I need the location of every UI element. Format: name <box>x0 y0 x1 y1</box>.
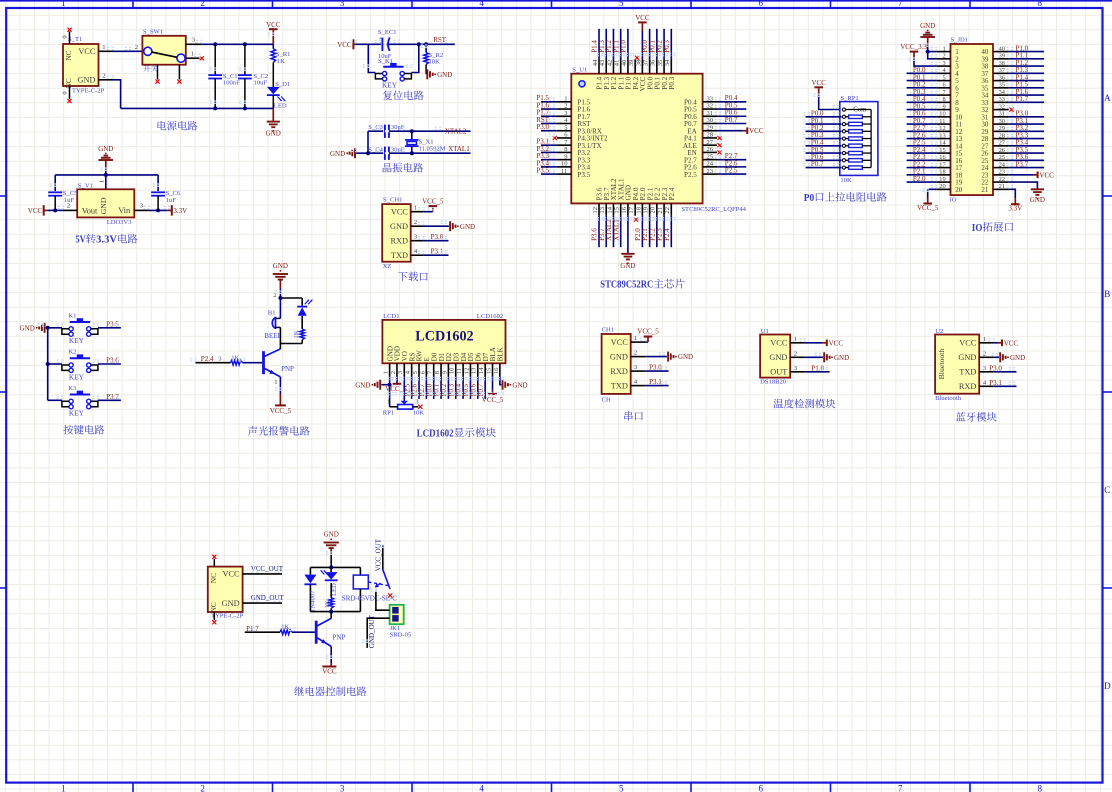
svg-text:12: 12 <box>592 207 599 214</box>
svg-text:22: 22 <box>999 176 1005 183</box>
svg-text:VCC: VCC <box>812 79 827 87</box>
svg-text:VCC: VCC <box>829 339 844 347</box>
svg-text:P3.7: P3.7 <box>1016 160 1029 168</box>
wire JD1.9 net P0.5 <box>907 109 937 111</box>
svg-text:LCD1602: LCD1602 <box>415 328 473 344</box>
SW1 pin 1 stub unconnected <box>186 57 200 59</box>
svg-text:IO: IO <box>950 196 957 203</box>
wire emitter to VCC_5 <box>279 377 281 394</box>
svg-text:TXD: TXD <box>959 368 976 377</box>
svg-text:2: 2 <box>634 350 637 357</box>
junction C2 top <box>243 42 247 46</box>
wire LCD1.7 net P0.0 <box>433 377 435 399</box>
wire U1.38 VCC <box>641 31 643 59</box>
wire LCD1.2 VDD VCC_5 <box>396 377 398 383</box>
svg-text:GND: GND <box>512 381 527 389</box>
junction crystal top <box>410 129 414 133</box>
svg-text:44: 44 <box>592 59 599 66</box>
svg-text:CH: CH <box>602 397 611 404</box>
svg-text:3: 3 <box>943 60 946 67</box>
svg-text:1N4007: 1N4007 <box>310 590 317 612</box>
svg-text:SRD-05VDC-SL-C: SRD-05VDC-SL-C <box>342 594 398 602</box>
ground GND keys sideways-left <box>44 323 46 333</box>
wire U1.4 net RST <box>541 122 557 124</box>
svg-text:8: 8 <box>1038 784 1043 792</box>
svg-text:11: 11 <box>456 368 463 374</box>
U1 pin 41 P1.1 top <box>617 76 625 89</box>
LCD1 pin 4 RS <box>408 353 416 362</box>
svg-text:P1.0: P1.0 <box>620 40 628 53</box>
svg-text:10K: 10K <box>413 410 425 417</box>
svg-text:12: 12 <box>939 125 945 132</box>
svg-text:12: 12 <box>463 368 470 375</box>
svg-text:TYPE-C-2P: TYPE-C-2P <box>72 88 105 95</box>
LCD1 pin 3 VO <box>401 351 409 361</box>
wire U1.41 net P1.1 <box>620 29 622 60</box>
wire JD1.30 net P3.1 <box>1009 123 1044 125</box>
wire JD1.36 net P1.4 <box>1009 80 1044 82</box>
svg-text:GND: GND <box>769 353 787 362</box>
svg-text:1K: 1K <box>324 600 331 608</box>
svg-text:2: 2 <box>390 371 397 374</box>
svg-text:P0.7: P0.7 <box>811 160 824 168</box>
svg-text:1uF: 1uF <box>64 197 75 204</box>
svg-text:3.3V: 3.3V <box>173 207 187 215</box>
svg-text:9: 9 <box>943 103 946 110</box>
svg-text:S_C5: S_C5 <box>63 190 78 197</box>
wire JD1.26 net P3.5 <box>1009 152 1044 154</box>
svg-text:29: 29 <box>999 125 1005 132</box>
svg-text:17: 17 <box>628 206 635 213</box>
wire U1.18 net P2.0 <box>641 216 643 248</box>
wire bottom rail power circuit <box>121 107 274 109</box>
wire RP1 P0.6 <box>806 159 842 161</box>
junction C1 top <box>213 42 217 46</box>
svg-text:BLK: BLK <box>497 346 505 361</box>
svg-text:14: 14 <box>606 206 613 213</box>
wire JD1.19 net P2.0 <box>907 181 937 183</box>
wire U1.2 net P1.6 <box>541 108 557 110</box>
ground GND bluetooth sideways <box>999 352 1001 362</box>
svg-text:GND: GND <box>678 353 693 361</box>
wire LDO top rail <box>55 174 158 176</box>
U1 pin 34 P0.3 top <box>668 76 676 89</box>
wire JD1.13 net P2.6 <box>907 138 937 140</box>
power port 3.3V JD1.21 <box>1014 198 1016 204</box>
wire JD1.15 net P2.4 <box>907 152 937 154</box>
svg-text:VCC: VCC <box>1004 339 1019 347</box>
wire JD1.23 to VCC <box>1009 174 1033 176</box>
LCD1 pin 2 VDD <box>394 346 402 361</box>
wire U1.1 net P1.5 <box>541 101 557 103</box>
svg-text:GND: GND <box>958 353 976 362</box>
svg-text:VCC: VCC <box>959 339 977 348</box>
svg-text:RST: RST <box>433 36 447 44</box>
wire CH1.2 to GND <box>423 225 449 227</box>
wire LCD1.14 net P0.7 <box>484 377 486 399</box>
svg-text:4: 4 <box>479 0 484 8</box>
wire VCC to RP1 com <box>819 95 842 110</box>
wire U1.10 net P3.4 <box>541 166 557 168</box>
svg-text:NC: NC <box>64 50 73 60</box>
wire U1.36 net P0.1 <box>656 29 658 60</box>
svg-text:28: 28 <box>999 132 1005 139</box>
svg-text:KEY: KEY <box>69 336 85 345</box>
U1 pin 42 P1.2 top <box>610 76 618 89</box>
svg-text:1: 1 <box>274 379 277 386</box>
svg-text:P2.4: P2.4 <box>663 228 671 241</box>
wire U1.40 net P1.0 <box>627 29 629 60</box>
svg-text:14: 14 <box>939 140 946 147</box>
U1 pin 35 P0.2 top <box>661 76 669 89</box>
ground GND DS18B20 sideways <box>823 352 825 362</box>
svg-text:6: 6 <box>759 784 764 792</box>
U1 pin 43 P1.3 top <box>603 76 611 89</box>
svg-text:GND: GND <box>355 381 370 389</box>
svg-text:36: 36 <box>650 59 657 66</box>
svg-text:26: 26 <box>999 147 1005 154</box>
svg-text:27: 27 <box>999 140 1006 147</box>
svg-text:2: 2 <box>102 72 105 79</box>
wire JD1.27 net P3.4 <box>1009 145 1044 147</box>
CH1 serial pin 4 stub <box>631 385 646 387</box>
svg-text:21: 21 <box>657 207 664 214</box>
wire U1.24 net P2.6 <box>717 166 746 168</box>
svg-text:B: B <box>1104 289 1110 299</box>
wire U1.43 net P1.3 <box>605 29 607 60</box>
junction R2 top <box>424 42 428 46</box>
svg-text:1K: 1K <box>293 330 300 338</box>
LCD1 pin 6 E <box>423 357 431 361</box>
wire key loop left <box>368 44 375 72</box>
wire CH1.3 net P3.0 serial <box>645 370 668 372</box>
svg-text:5: 5 <box>619 784 624 792</box>
svg-text:GND: GND <box>99 197 108 214</box>
svg-text:GND: GND <box>98 145 113 153</box>
wire U1.22 net P2.4 <box>670 216 672 248</box>
U1 pin 16 GND bottom <box>625 185 633 200</box>
svg-text:S_K1: S_K1 <box>378 58 393 65</box>
wire RP1 P0.4 <box>806 145 842 147</box>
wire JD1.16 net P2.3 <box>907 159 937 161</box>
svg-text:100nF: 100nF <box>223 80 240 87</box>
LCD1 pin 7 D0 <box>430 352 438 361</box>
title serial port <box>624 411 632 421</box>
wire JD1.17 net P2.2 <box>907 167 937 169</box>
svg-text:GND: GND <box>920 22 935 30</box>
svg-text:P3.1: P3.1 <box>989 379 1002 387</box>
wire JD1.21 to 3.3V <box>1009 189 1016 198</box>
svg-text:2: 2 <box>794 350 797 357</box>
svg-text:P0.3: P0.3 <box>668 76 676 89</box>
wire JD1.4 net P0.0 <box>907 72 937 74</box>
U2 pin 1 stub <box>979 342 994 344</box>
svg-text:1: 1 <box>387 398 390 405</box>
svg-text:VCC: VCC <box>635 14 650 22</box>
wire U1.19 net P2.1 <box>649 216 651 248</box>
wire alarm bottom rail <box>280 343 302 345</box>
wire U1.14 net XTAL2 <box>612 216 614 248</box>
wire U1.25 net P2.7 <box>717 159 746 161</box>
svg-text:1: 1 <box>99 180 106 183</box>
svg-text:VCC: VCC <box>770 339 788 348</box>
svg-text:XZ: XZ <box>383 263 392 270</box>
svg-text:14: 14 <box>478 367 485 374</box>
svg-text:K1: K1 <box>68 312 76 319</box>
snap markers <box>38 32 1016 659</box>
wire U1.31 net P0.6 <box>717 115 746 117</box>
no-connect RP1.3 <box>418 405 422 409</box>
wire JD1.38 net P1.2 <box>1009 65 1044 67</box>
wire LCD1.5 net P2.6 <box>418 377 420 399</box>
wire U1.29 EA to VCC <box>717 130 743 132</box>
no-connect relay NO <box>388 593 392 597</box>
title reset circuit <box>383 91 392 101</box>
svg-text:38: 38 <box>999 60 1005 67</box>
U1 DS18B20 pin 2 stub <box>790 356 805 358</box>
wire CH1.4 net P3.1 <box>423 254 448 256</box>
svg-text:GND: GND <box>78 75 96 84</box>
svg-text:3.3V: 3.3V <box>96 235 117 246</box>
title download port <box>398 272 408 281</box>
svg-text:30pF: 30pF <box>391 124 405 131</box>
wire U1.33 net P0.4 <box>717 101 746 103</box>
wire JD1.5 net P0.1 <box>907 80 937 82</box>
svg-text:20: 20 <box>650 206 657 213</box>
power port VCC EA <box>743 130 748 132</box>
LCD1 pin 11 D4 <box>460 352 468 361</box>
resistor 1K base alarm <box>231 360 243 365</box>
relay coil SRD-05VDC-SL-C <box>359 567 361 575</box>
CH1 serial pin 1 stub <box>631 341 646 343</box>
svg-text:LCD1: LCD1 <box>383 313 399 320</box>
capacitor EC1 10uF polarized <box>381 37 384 51</box>
svg-text:RP1: RP1 <box>383 410 394 417</box>
wire T1.2 down to bottom rail <box>113 80 121 109</box>
svg-text:13: 13 <box>471 367 478 374</box>
capacitor C2 10uF <box>244 44 246 75</box>
wire JD1.25 net P3.6 <box>1009 159 1044 161</box>
svg-text:39: 39 <box>999 53 1005 60</box>
junction C6 <box>156 208 160 212</box>
MCU U1 STC89C52RC LQFP44 <box>571 74 702 204</box>
svg-text:TXD: TXD <box>391 251 408 260</box>
sensor U1 DS18B20 <box>760 335 790 378</box>
wire U2.2 to GND <box>994 356 999 358</box>
svg-text:1: 1 <box>61 0 66 8</box>
RP1 resistor 5 net P0.4 <box>842 144 845 147</box>
svg-text:XTAL1: XTAL1 <box>612 219 620 241</box>
SW1 bottom pins unconnected <box>157 65 159 80</box>
svg-text:1: 1 <box>383 371 390 374</box>
resistor R1 1K <box>272 44 274 49</box>
svg-text:36: 36 <box>999 74 1005 81</box>
wire JD1.8 net P0.4 <box>907 101 937 103</box>
svg-text:17: 17 <box>939 161 946 168</box>
wire crystal top rail <box>368 130 471 132</box>
svg-text:K3: K3 <box>68 385 77 392</box>
svg-text:BEEP: BEEP <box>264 332 281 340</box>
svg-text:P0: P0 <box>804 193 814 204</box>
svg-text:20: 20 <box>939 183 945 190</box>
pushbutton K1 reset KEY <box>383 66 403 68</box>
junction crystal bottom left <box>366 151 370 155</box>
wire K2 net P3.6 <box>98 363 121 365</box>
wire RP1 P0.7 <box>806 167 842 169</box>
svg-text:GND: GND <box>266 130 281 138</box>
pushbutton K3 KEY <box>70 394 90 396</box>
svg-text:S_SW1: S_SW1 <box>143 29 163 36</box>
junction C1 bottom <box>213 106 217 110</box>
svg-text:37: 37 <box>643 59 650 66</box>
title crystal circuit <box>383 163 392 172</box>
U2 pin 2 stub <box>979 356 994 358</box>
LCD1 pin 5 RW <box>416 350 424 361</box>
resistor 1K base relay <box>280 630 292 635</box>
junction key right <box>417 42 421 46</box>
U2 pin 3 stub <box>979 371 994 373</box>
title alarm circuit <box>248 426 257 436</box>
relay NC contact arrow <box>377 583 380 586</box>
wire U1.44 net P1.4 <box>598 29 600 60</box>
svg-text:P3.0: P3.0 <box>536 123 549 131</box>
svg-text:GND: GND <box>610 352 628 361</box>
svg-text:VCC_5: VCC_5 <box>482 396 504 404</box>
svg-text:VCC_OUT: VCC_OUT <box>375 538 383 571</box>
svg-text:PNP: PNP <box>281 365 294 373</box>
svg-text:25: 25 <box>999 154 1005 161</box>
svg-text:K2: K2 <box>68 349 76 356</box>
svg-text:P3.0: P3.0 <box>431 233 444 241</box>
wire trunk to K2 <box>48 363 62 365</box>
svg-text:S_V1: S_V1 <box>78 182 93 189</box>
wire crystal bottom rail <box>356 152 470 154</box>
power port VCC_5 alarm <box>275 404 286 406</box>
svg-text:P2.5: P2.5 <box>684 171 697 179</box>
svg-text:7: 7 <box>898 0 903 8</box>
title bluetooth module <box>956 412 966 421</box>
wire JD1.31 net P3.0 <box>1009 116 1044 118</box>
wire JD1.3 to VCC_3.3 <box>914 59 936 67</box>
svg-text:16: 16 <box>939 154 945 161</box>
svg-text:43: 43 <box>599 59 606 66</box>
capacitor C5 1uF <box>54 175 56 191</box>
power port 3.3V <box>167 209 172 211</box>
svg-text:2: 2 <box>200 784 205 792</box>
svg-text:1: 1 <box>191 51 194 58</box>
svg-text:3: 3 <box>340 0 345 8</box>
wire U1.30 net P0.7 <box>717 122 746 124</box>
power port VCC DS18B20 <box>822 342 827 344</box>
T2 bottom pin <box>213 612 215 620</box>
svg-text:RXD: RXD <box>391 236 409 245</box>
svg-text:18: 18 <box>939 169 945 176</box>
pushbutton K2 KEY <box>70 357 90 359</box>
wire reset top rail <box>356 43 455 45</box>
wire U1.12 net P3.6 <box>598 216 600 248</box>
T1 bottom pin B1 <box>69 86 71 99</box>
svg-text:GND: GND <box>620 262 635 270</box>
svg-text:42: 42 <box>606 60 613 67</box>
U1 pin 37 P0.0 top <box>646 76 654 89</box>
wire JD1.33 net P1.7 <box>1009 101 1044 103</box>
wire JD1.37 net P1.3 <box>1009 72 1044 74</box>
capacitor C6 1uF <box>157 175 159 191</box>
svg-text:P3.1: P3.1 <box>649 378 662 386</box>
svg-text:0: 0 <box>62 35 69 38</box>
svg-text:2: 2 <box>135 44 138 51</box>
wire U1.8 net P3.2 <box>541 151 557 153</box>
wire LCD1.12 net P0.5 <box>469 377 471 399</box>
wire LCD1.6 net P2.7 <box>425 377 427 399</box>
no-connect U1.26 <box>717 150 721 154</box>
svg-text:P0.7: P0.7 <box>725 116 738 124</box>
svg-text:21: 21 <box>981 186 989 194</box>
svg-text:P0.3: P0.3 <box>663 40 671 53</box>
svg-text:S_JD1: S_JD1 <box>951 36 969 43</box>
wire LCD1.13 net P0.6 <box>477 377 479 399</box>
U1 DS18B20 pin 3 stub <box>790 371 805 373</box>
svg-text:S_D1: S_D1 <box>275 81 290 88</box>
capacitor C1 100nF <box>214 44 216 75</box>
svg-text:VCC: VCC <box>223 570 241 579</box>
ground GND chip bottom <box>627 252 629 255</box>
wire U1.37 net P0.0 <box>649 29 651 60</box>
svg-text:20: 20 <box>955 186 963 194</box>
T2 top pin <box>213 559 215 567</box>
wire relay bottom rail <box>310 611 360 613</box>
U1 pin 39 P4.2 top <box>632 76 640 89</box>
svg-text:6: 6 <box>943 82 946 89</box>
junction LDO gnd <box>104 173 108 177</box>
SW1 pin 3 stub <box>186 43 201 45</box>
power port VCC_5 JD1.20 <box>927 198 929 204</box>
LDO U V1 pin1 GND <box>105 175 107 189</box>
svg-text:35: 35 <box>999 82 1005 89</box>
junction C2 bottom <box>243 106 247 110</box>
wire JD1.7 net P0.3 <box>907 94 937 96</box>
svg-text:S_RP1: S_RP1 <box>840 95 858 102</box>
wire alarm buzzer branch <box>279 298 281 319</box>
svg-text:13: 13 <box>599 206 606 213</box>
svg-text:41: 41 <box>614 60 621 67</box>
svg-text:3.3V: 3.3V <box>1008 205 1022 213</box>
svg-text:39: 39 <box>628 59 635 66</box>
U1 pin 20 P2.2 bottom <box>654 187 662 200</box>
wire JD1.11 net P0.7 <box>907 123 937 125</box>
svg-text:2: 2 <box>943 53 946 60</box>
svg-text:S_EC1: S_EC1 <box>378 29 397 36</box>
svg-text:NC: NC <box>64 78 73 88</box>
wire U1.9 net P3.3 <box>541 159 557 161</box>
wire JD1.29 net P3.2 <box>1009 130 1044 132</box>
LCD1 module LCD1602 <box>382 320 505 363</box>
svg-text:STC89C52RC: STC89C52RC <box>600 280 653 291</box>
svg-text:VCC: VCC <box>337 41 352 49</box>
svg-text:VCC: VCC <box>266 21 281 29</box>
junction C5 <box>53 208 57 212</box>
transistor Q2 PNP relay <box>315 621 318 644</box>
wire U1.23 net P2.5 <box>717 173 746 175</box>
wire U1.5 net P3.0 <box>541 130 557 132</box>
RP1 resistor 7 net P0.6 <box>842 159 845 162</box>
module U2 Bluetooth <box>935 335 979 394</box>
svg-text:19: 19 <box>939 176 945 183</box>
svg-text:VCC: VCC <box>611 338 629 347</box>
wire JD1.22 to GND <box>1009 182 1038 188</box>
svg-text:TXD: TXD <box>611 381 628 390</box>
wire K3 net P3.7 <box>98 399 121 401</box>
